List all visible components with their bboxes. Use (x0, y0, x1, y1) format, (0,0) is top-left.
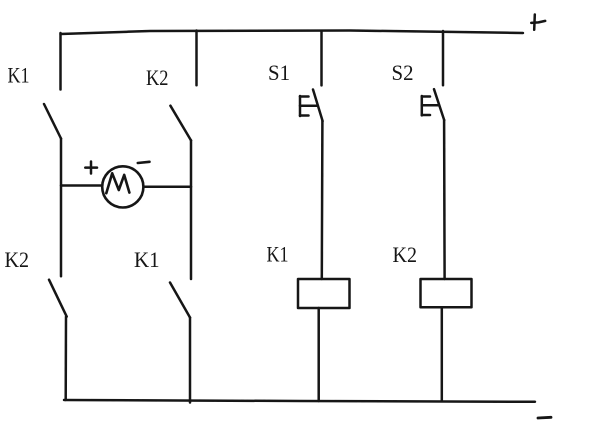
svg-text:S2: S2 (392, 60, 414, 85)
terminal + (positive supply) (531, 15, 545, 30)
polarity + (motor left terminal) (85, 162, 97, 174)
svg-text:K1: K1 (8, 63, 30, 88)
polarity - (motor right terminal) (138, 162, 150, 163)
terminal - (negative supply) (538, 416, 551, 420)
wire: branch2 middle segment to motor node (190, 140, 193, 279)
wire: motor right lead (node at branch2) (145, 186, 191, 189)
wire: top supply rail (+) (61, 31, 524, 35)
svg-text:K1: K1 (134, 247, 160, 272)
wire: branch2 bottom segment to return rail (189, 318, 192, 403)
pushbutton S1 (NO momentary, E actuator) (300, 90, 323, 122)
wire: branch4 segment to coil K2 (443, 120, 446, 279)
coil K1 (relay coil) (298, 279, 350, 308)
wire: branch1 middle segment to motor node (60, 139, 63, 277)
contact K1 (NO contact, top-left) (44, 104, 61, 139)
coil K2 (relay coil) (421, 279, 472, 307)
wire: branch2 drop from top rail (195, 31, 198, 86)
wire: branch4 coil to return rail (441, 307, 444, 401)
contact K2 (NO contact, bottom-left) (49, 280, 67, 317)
wire: bottom return rail (-) (64, 400, 535, 402)
pushbutton S2 (NO momentary, E actuator) (422, 89, 444, 120)
contact K2 (NO contact, top-middle) (170, 106, 191, 141)
contact K1 (NO contact, bottom-middle) (170, 283, 190, 318)
wire: branch1 bottom segment to return rail (64, 317, 67, 400)
svg-text:K2: K2 (393, 242, 418, 267)
svg-text:K1: K1 (267, 242, 289, 267)
svg-text:K2: K2 (146, 65, 169, 90)
wire: motor left lead (node at branch1) (61, 184, 101, 187)
label M (motor letter) (106, 173, 129, 193)
svg-text:S1: S1 (268, 60, 290, 85)
svg-text:K2: K2 (5, 247, 30, 272)
wire: branch3 drop from top rail (320, 31, 323, 85)
wire: branch3 coil to return rail (317, 308, 320, 401)
wire: branch3 segment to coil K1 (321, 121, 324, 279)
wire: branch4 drop from top rail (442, 31, 445, 85)
motor M1 (DC motor) (102, 166, 143, 207)
wire: branch1 drop from top rail (59, 33, 62, 90)
